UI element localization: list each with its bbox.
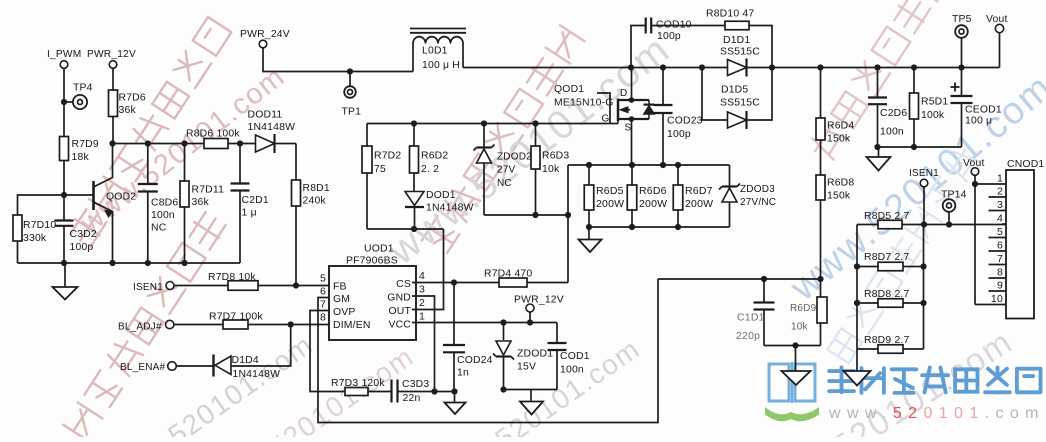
resistor R7D10 [13,215,56,244]
svg-text:220p: 220p [736,330,760,342]
svg-text:GND: GND [387,293,411,304]
svg-text:SS515C: SS515C [720,47,760,58]
svg-text:10k: 10k [791,322,809,333]
svg-text:DOD1: DOD1 [426,190,456,201]
net label BL_ENA# [120,362,176,373]
svg-text:R6D4: R6D4 [827,121,854,132]
resistor R6D3 [531,124,569,216]
svg-text:R6D9: R6D9 [790,303,817,314]
wire output gnd rail [874,144,961,150]
svg-text:UOD1: UOD1 [364,244,394,255]
resistor R7D3 [331,378,385,396]
svg-text:BL_ADJ#: BL_ADJ# [118,322,162,333]
IC pin names left [333,282,371,332]
resistor R7D6 [109,68,146,143]
net label ISEN1 right [909,168,939,225]
net label PWR_12V mid [514,295,564,323]
svg-text:2: 2 [419,297,425,309]
zener ZDOD2 [474,124,533,216]
svg-text:NC: NC [497,178,512,189]
svg-text:100 μ: 100 μ [965,116,992,127]
wire pin7 to R7D3 [310,311,345,392]
ground C1D1/R6D9 [782,346,811,386]
svg-text:R7D10: R7D10 [23,220,56,231]
connector pin stubs and numbers [975,173,1006,306]
resistor R8D8 [857,289,924,307]
svg-text:D1D5: D1D5 [721,85,748,96]
svg-text:OUT: OUT [388,306,411,317]
ground left rail [53,263,78,300]
svg-text:R7D3 120k: R7D3 120k [331,378,385,389]
svg-text:PF7906BS: PF7906BS [346,256,398,267]
svg-text:R6D5: R6D5 [596,185,624,197]
svg-text:PWR_24V: PWR_24V [240,29,290,40]
capacitor C2D1 [231,144,269,264]
svg-text:SS515C: SS515C [720,98,760,109]
svg-text:R7D4 470: R7D4 470 [484,269,532,280]
wire R7D4 to sense rail [527,282,568,284]
svg-text:1 μ: 1 μ [242,208,257,219]
svg-text:R6D7: R6D7 [685,185,713,197]
svg-text:VCC: VCC [388,320,411,331]
svg-text:9: 9 [997,280,1003,292]
IC pin names right [387,279,411,331]
svg-text:COD10: COD10 [656,20,692,31]
svg-text:R7D9: R7D9 [72,139,99,150]
svg-text:CS: CS [396,279,411,290]
svg-text:ZDOD2: ZDOD2 [497,152,532,163]
svg-text:6: 6 [320,286,326,298]
diode D1D4 [214,355,281,381]
wire GND return to C1D1 node [658,276,824,282]
svg-text:R8D1: R8D1 [303,183,330,194]
svg-text:100p: 100p [667,129,691,140]
svg-text:R8D7 2.7: R8D7 2.7 [864,252,910,263]
svg-text:4: 4 [997,213,1003,225]
capacitor C2D6 [868,68,907,148]
svg-text:1N4148W: 1N4148W [233,369,281,380]
svg-text:COD1: COD1 [560,351,590,362]
net label Vout right [963,158,985,184]
wire COD24 branch [453,283,455,392]
wire CS line [412,279,499,285]
resistor R5D1 [910,68,949,148]
svg-text:C3D3: C3D3 [402,379,429,390]
svg-text:ISEN1: ISEN1 [133,282,163,293]
svg-text:FB: FB [333,282,347,293]
wire collector rail y143 [109,140,296,146]
wire sense left vertical [854,225,860,350]
svg-text:TP4: TP4 [73,83,93,94]
capacitor C8D6 [138,144,179,264]
diode D1D1 [720,35,760,77]
svg-text:6: 6 [997,240,1003,252]
resistor R6D2 [410,124,449,192]
watermark: www right blue [782,66,1046,310]
svg-text:2. 2: 2. 2 [421,164,439,175]
wire sense bottom rail y227 [586,224,730,230]
capacitor COD10 [631,18,725,68]
svg-text:PWR_12V: PWR_12V [514,295,564,306]
svg-text:OVP: OVP [333,307,356,318]
ground output filter [867,147,891,171]
transistor QOD1 ME15N10-G [554,68,655,166]
ground COD24 [445,392,466,415]
svg-text:8: 8 [997,267,1003,279]
ground sense resistors [844,349,871,386]
svg-text:C1D1: C1D1 [737,312,765,324]
svg-text:QOD2: QOD2 [106,192,136,203]
svg-text:1N4148W: 1N4148W [248,122,296,133]
wire I_PWM vertical [64,68,73,195]
svg-text:200W: 200W [596,198,624,210]
svg-text:R7D11: R7D11 [192,185,225,196]
svg-text:1: 1 [419,311,425,323]
capacitor COD23 [654,68,703,166]
wire sense top rail y165 [568,162,730,168]
svg-text:8: 8 [320,312,326,324]
svg-text:100k: 100k [921,110,945,121]
svg-text:100p: 100p [657,31,681,42]
wire DIM line [174,321,329,327]
wire pin3 GND down [412,296,435,392]
svg-text:TP1: TP1 [342,107,362,118]
svg-text:D1D4: D1D4 [232,355,259,366]
watermark: www center large [380,27,679,274]
test point TP5 [952,14,972,68]
svg-text:www.520101.com: www.520101.com [828,405,1045,422]
capacitor C1D1 [736,279,775,346]
wire pin2 OUT up [412,229,444,310]
svg-text:R7D7 100k: R7D7 100k [209,312,263,323]
svg-text:BL_ENA#: BL_ENA# [120,362,166,373]
wire BL_ENA to D1D4 [177,365,215,367]
logo book icon [766,362,818,420]
diode D1D5 [702,68,772,130]
wire base jog / R7D10 top [18,192,68,215]
svg-text:100n: 100n [151,210,175,221]
wire pin4 sense line [857,221,1006,227]
net label ISEN1 left [133,282,174,294]
resistor R8D7 [857,252,924,271]
svg-text:1: 1 [997,173,1003,185]
svg-text:1N4148W: 1N4148W [426,203,474,214]
wire gate rail y123.5 [367,93,618,127]
net label PWR_12V [87,49,136,68]
resistor R6D4 [816,68,854,145]
wire PWR_24V to inductor [263,48,413,74]
svg-text:C8D6: C8D6 [151,198,178,209]
svg-text:7: 7 [997,253,1003,265]
svg-text:R5D1: R5D1 [921,97,948,108]
IC pin numbers right [419,270,425,323]
logo text hanzi [829,368,1040,393]
svg-text:GM: GM [333,294,350,305]
wire R7D3 to C3D3 [368,391,391,393]
svg-text:R7D6: R7D6 [119,93,146,104]
resistor R6D7 [673,165,713,227]
svg-text:100p: 100p [70,242,94,253]
wire sense mid rail y215 [484,212,571,218]
resistor R7D9 [60,137,99,164]
svg-text:D: D [620,88,627,99]
net label PWR_24V [240,29,290,48]
wire VCC rail [412,319,557,325]
wire main rail [463,64,1000,70]
watermark: hanzi right-bottom blue [826,145,982,364]
wire FB line [174,282,329,288]
IC pin numbers left [320,273,326,324]
svg-text:DIM/EN: DIM/EN [333,320,371,331]
svg-text:36k: 36k [119,105,137,116]
svg-text:TP14: TP14 [941,190,967,201]
svg-text:7: 7 [320,299,326,311]
capacitor C3D2 [55,195,97,263]
svg-text:22n: 22n [403,393,421,404]
svg-text:QOD1: QOD1 [554,84,584,95]
svg-text:3: 3 [419,284,425,296]
svg-text:240k: 240k [303,196,327,207]
svg-text:I_PWM: I_PWM [47,49,81,60]
svg-text:TP5: TP5 [952,14,972,25]
svg-text:150k: 150k [827,134,851,145]
svg-text:CEOD1: CEOD1 [965,105,1002,116]
zener ZDOD3 [719,165,776,227]
svg-text:15V: 15V [517,362,536,373]
resistor R8D10 [706,9,772,68]
svg-text:COD23: COD23 [667,116,703,127]
svg-text:ISEN1: ISEN1 [909,168,939,179]
svg-text:100n: 100n [560,365,584,376]
svg-text:PWR_12V: PWR_12V [87,49,136,60]
svg-text:NC: NC [151,223,167,234]
svg-text:ZDOD3: ZDOD3 [740,184,775,195]
wire D1D4 to pin8 [231,325,291,367]
svg-text:L0D1: L0D1 [422,46,448,57]
svg-text:R6D8: R6D8 [827,178,854,189]
svg-text:Vout: Vout [986,14,1008,25]
svg-text:ME15N10-G: ME15N10-G [554,98,614,109]
svg-text:10k: 10k [542,164,560,175]
test point TP1 [342,72,362,118]
svg-text:R8D8 2.7: R8D8 2.7 [864,289,910,300]
capacitor CEOD1 [951,68,1002,148]
svg-text:27V: 27V [497,165,516,176]
resistor R7D2 [362,124,401,230]
svg-text:5: 5 [997,226,1003,238]
capacitor C3D3 [392,379,430,404]
connector CNOD1 box [1006,159,1044,319]
wire sense vertical x568 [567,165,569,283]
watermark: www bottom-left gray [102,329,319,442]
svg-text:COD24: COD24 [457,355,493,366]
watermark: www.520101.com upper-left [74,60,291,240]
svg-text:C2D6: C2D6 [880,108,907,119]
capacitor COD1 [548,323,590,390]
ground sense block [579,227,602,252]
svg-text:36k: 36k [192,197,210,208]
svg-text:C2D1: C2D1 [242,195,269,206]
wire c1d1-r6d9 bottom [764,342,821,348]
svg-text:3: 3 [997,199,1003,211]
svg-text:200W: 200W [685,198,713,210]
resistor R6D6 [627,165,667,227]
svg-text:18k: 18k [72,152,90,163]
wire Vout to pin1/pin10 [972,181,978,305]
svg-text:150k: 150k [827,191,851,202]
inductor L0D1 [410,29,466,72]
wire C3D3 to gnd node [399,388,458,394]
svg-text:R8D6 100k: R8D6 100k [186,129,240,140]
svg-text:2: 2 [997,186,1003,198]
watermark: www bottom-middle gray [429,333,646,442]
wire zdod1-cod1 bottom [500,386,557,392]
resistor R7D11 [180,144,224,264]
wire R7D10 bottom [17,241,19,263]
resistor R8D5 [864,211,910,229]
svg-text:DOD11: DOD11 [248,110,283,121]
capacitor COD24 [443,345,493,379]
op-amp U1 / IC UOD1 PF7906BS box [329,244,416,341]
wire pin6 loop to bottom rail [318,279,658,423]
svg-text:R8D10 47: R8D10 47 [706,9,754,20]
resistor R8D6 [186,129,240,149]
resistor R7D8 [208,272,258,290]
test point TP14 [941,190,967,228]
zener ZDOD1 [493,323,553,390]
svg-text:330k: 330k [23,233,47,244]
diode DOD11 [248,110,296,154]
svg-text:R6D2: R6D2 [421,151,448,162]
svg-text:R8D5 2.7: R8D5 2.7 [864,211,910,222]
svg-text:R7D2: R7D2 [374,151,401,162]
svg-text:5: 5 [320,273,326,285]
resistor R6D5 [584,165,624,227]
test point TP4 [61,83,93,110]
watermark: hanzi bottom-left [63,210,228,441]
svg-text:R6D6: R6D6 [639,185,667,197]
svg-text:1n: 1n [457,368,469,379]
svg-text:CNOD1: CNOD1 [1007,159,1044,170]
resistor R6D8 [816,140,854,279]
watermark: www bottom-right gray [750,322,1020,442]
net label BL_ADJ# [118,320,174,332]
svg-text:R8D9 2.7: R8D9 2.7 [864,335,910,346]
watermark: www center-bottom pink [203,341,420,442]
svg-text:S: S [625,123,632,134]
watermark: hanzi top-left [67,16,232,248]
resistor R6D9 [790,279,827,346]
resistor R7D7 [209,312,263,330]
resistor R8D1 [292,144,330,286]
diode DOD1 [405,190,474,229]
svg-text:10: 10 [991,293,1003,305]
svg-text:100n: 100n [880,127,904,138]
net label I_PWM [47,49,81,68]
wire gate net bottom [367,226,444,232]
resistor R7D4 [484,269,532,288]
net label Vout top [986,14,1008,68]
ground ZDOD1/COD1 [520,390,543,415]
svg-text:R7D8 10k: R7D8 10k [208,272,256,283]
svg-text:200W: 200W [639,198,667,210]
svg-text:R6D3: R6D3 [542,151,569,162]
svg-text:G: G [602,114,610,125]
svg-text:D1D1: D1D1 [723,35,750,46]
svg-text:4: 4 [419,270,425,282]
transistor QOD2 [64,144,136,264]
svg-text:C3D2: C3D2 [70,229,97,240]
logo url text [828,405,1045,422]
svg-text:75: 75 [374,164,386,175]
svg-text:100 μ H: 100 μ H [422,60,460,71]
watermark: hanzi top-center [420,25,585,256]
wire bottom rail left [18,260,241,266]
wire sense right vertical [920,225,926,350]
svg-text:27V/NC: 27V/NC [740,197,776,208]
resistor R8D9 [857,335,924,353]
watermark: hanzi top-right [808,0,974,163]
